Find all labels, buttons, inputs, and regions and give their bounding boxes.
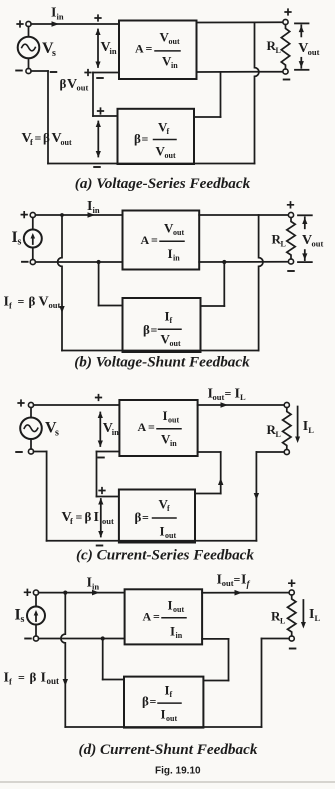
label IS minus terminal (d): [25, 638, 31, 640]
svg-text:f: f: [30, 137, 33, 147]
svg-text:out: out: [168, 416, 179, 425]
svg-text:=: =: [146, 42, 153, 56]
annotation arrow Vf (a): [96, 121, 101, 158]
wire bottom rail (b): [62, 350, 259, 352]
label VS minus terminal (a): [16, 70, 22, 72]
svg-text:β: β: [29, 294, 36, 309]
svg-text:s: s: [21, 614, 25, 625]
svg-text:out: out: [165, 531, 176, 540]
svg-text:β: β: [60, 76, 67, 91]
wire amplifier output top (d): [202, 592, 289, 594]
arrow Iin (b): [88, 212, 96, 218]
label Vf equation (c): [62, 509, 114, 526]
label feedback voltage minus sign (a): [51, 71, 57, 73]
label Vin minus (c): [98, 457, 104, 459]
svg-text:=: =: [142, 511, 149, 525]
svg-text:in: in: [110, 46, 117, 56]
wire series node down to feedback output (a): [92, 73, 94, 117]
svg-text:out: out: [170, 339, 181, 348]
svg-text:β: β: [30, 670, 37, 685]
voltage source VS (a): [18, 21, 40, 73]
wire amplifier output bottom (a): [197, 71, 283, 73]
svg-text:L: L: [308, 425, 314, 435]
svg-text:out: out: [213, 392, 225, 402]
junction node input top (d): [63, 591, 67, 595]
label Vout plus (a): [285, 9, 291, 15]
label IS value (b): [12, 229, 22, 248]
wire amplifier output bottom (b): [199, 261, 288, 263]
junction node input bottom (b): [97, 260, 101, 264]
label amplifier gain equation A=Iout/Iin (d): [143, 598, 187, 641]
svg-text:=: =: [151, 233, 158, 247]
svg-text:in: in: [112, 427, 119, 437]
label Vout (a): [298, 41, 319, 57]
label Vout minus (b): [288, 270, 294, 272]
label IL (c): [303, 419, 315, 435]
svg-text:in: in: [93, 205, 100, 215]
svg-text:L: L: [276, 46, 281, 55]
svg-text:β: β: [134, 131, 141, 146]
annotation arrow Vin (a): [95, 29, 100, 69]
svg-text:out: out: [49, 300, 61, 310]
caption (b): [74, 354, 250, 371]
label Vin (c): [103, 421, 119, 437]
label VS value (a): [42, 40, 56, 59]
svg-text:A: A: [138, 420, 147, 434]
label RL plus (d): [289, 580, 295, 586]
wire VS minus to bottom rail (a): [31, 71, 48, 164]
svg-text:in: in: [173, 254, 180, 263]
load resistor RL (b): [287, 212, 295, 264]
label Iout equals If (d): [217, 573, 251, 590]
svg-text:out: out: [61, 138, 72, 147]
svg-text:I: I: [168, 598, 173, 613]
label feedback equation beta=Vf/Vout (a): [134, 120, 176, 161]
svg-text:β: β: [85, 509, 92, 524]
svg-text:=: =: [142, 132, 149, 146]
svg-text:=: =: [153, 609, 160, 623]
current source IS (b): [24, 212, 42, 264]
svg-text:out: out: [47, 676, 60, 686]
svg-text:out: out: [165, 151, 176, 160]
label RL (c): [267, 422, 281, 439]
junction node input bottom (d): [101, 636, 105, 640]
annotation Vout measure (b): [298, 215, 312, 262]
label VS minus terminal (c): [16, 451, 22, 453]
svg-text:(c) Current-Series Feedback: (c) Current-Series Feedback: [76, 547, 254, 564]
feedback box beta (a): [118, 109, 195, 164]
svg-text:L: L: [281, 240, 286, 249]
label feedback equation beta=Vf/Iout (c): [135, 497, 177, 541]
load resistor RL (d): [288, 590, 296, 641]
svg-text:(b) Voltage-Shunt Feedback: (b) Voltage-Shunt Feedback: [74, 354, 250, 371]
wire shunt feedback vertical (b): [58, 215, 62, 351]
amplifier box A (d): [125, 589, 203, 644]
svg-text:=: =: [35, 131, 42, 145]
svg-text:in: in: [57, 12, 64, 22]
svg-text:out: out: [312, 239, 324, 249]
wire bottom rail (a): [48, 163, 255, 165]
caption (d): [79, 741, 258, 758]
annotation arrow Vf (c): [98, 498, 103, 538]
svg-text:V: V: [39, 295, 49, 310]
svg-text:out: out: [77, 83, 89, 93]
svg-text:out: out: [173, 605, 184, 614]
wire input top (d): [39, 592, 125, 594]
label Vf plus (a): [98, 108, 104, 114]
svg-text:Fig. 19.10: Fig. 19.10: [155, 766, 201, 777]
svg-text:=: =: [18, 671, 25, 685]
label Iin (d): [87, 576, 100, 592]
svg-text:A: A: [135, 42, 144, 56]
annotation Vout measure (a): [295, 23, 309, 69]
svg-text:=: =: [225, 387, 232, 401]
label If equation (d): [4, 670, 60, 687]
arrow If downward (b): [59, 306, 64, 313]
svg-text:f: f: [9, 677, 12, 687]
label IL (d): [309, 607, 321, 623]
svg-text:out: out: [173, 228, 184, 237]
svg-text:out: out: [308, 47, 320, 57]
label Iout equals IL (c): [208, 387, 247, 403]
junction node output bottom (b): [222, 260, 226, 264]
label amplifier gain equation A=Vout/Iin (b): [141, 221, 185, 263]
label amplifier gain equation A=Iout/Vin (c): [138, 408, 182, 448]
current source IS (d): [27, 590, 45, 641]
wire RL bottom to rail (c): [256, 452, 284, 541]
svg-text:(a) Voltage-Series Feedback: (a) Voltage-Series Feedback: [75, 175, 251, 192]
wire amplifier output top (a): [197, 21, 283, 23]
label IS minus terminal (b): [22, 261, 28, 263]
load resistor RL (c): [283, 402, 291, 454]
svg-text:f: f: [9, 301, 12, 311]
amplifier box A (c): [119, 400, 197, 456]
svg-text:=: =: [234, 573, 241, 587]
label VS plus terminal (c): [18, 400, 24, 406]
label IS value (d): [15, 607, 25, 626]
svg-text:f: f: [70, 516, 73, 526]
wire series node to amplifier input (a): [93, 72, 119, 74]
label feedback equation beta=If/Vout (b): [143, 309, 181, 349]
svg-text:β: β: [135, 510, 142, 525]
svg-text:out: out: [166, 714, 177, 723]
label RL (b): [272, 232, 286, 249]
svg-text:out: out: [222, 578, 234, 588]
label RL (d): [271, 609, 285, 626]
svg-text:I: I: [41, 671, 46, 686]
wire shunt feedback vertical (d): [61, 593, 65, 727]
svg-text:in: in: [170, 439, 177, 448]
wire node down to feedback input (b): [99, 262, 123, 306]
label Vout (b): [302, 233, 323, 249]
svg-text:out: out: [102, 516, 114, 526]
page rule bottom: [0, 781, 335, 783]
wire output sampling vertical (b): [259, 215, 263, 351]
svg-text:=: =: [151, 323, 158, 337]
wire feedback output node (a): [93, 115, 118, 117]
wire bottom rail (d): [65, 726, 261, 728]
arrow If downward (d): [63, 679, 68, 686]
wire series node down to feedback output (c): [97, 452, 119, 497]
wire output sampling vertical (a): [255, 22, 259, 163]
label IS plus terminal (d): [25, 590, 31, 596]
label Vout plus (b): [288, 202, 294, 208]
arrow Iout (d): [235, 590, 243, 596]
wire amplifier output bottom to feedback input (c): [195, 452, 221, 494]
label VS plus terminal (a): [17, 21, 23, 27]
label VS value (c): [45, 420, 59, 439]
svg-text:I: I: [163, 408, 168, 423]
label If equation (b): [4, 294, 61, 311]
svg-text:I: I: [168, 246, 173, 261]
svg-text:s: s: [52, 48, 56, 59]
svg-text:I: I: [170, 624, 175, 639]
caption (c): [76, 547, 254, 564]
wire input top (b): [35, 214, 122, 216]
svg-text:f: f: [167, 127, 170, 136]
label amplifier gain equation A=Vout/Vin (a): [135, 30, 180, 71]
annotation arrow IL (c): [295, 407, 300, 444]
wire series node to amplifier input (c): [97, 451, 120, 453]
svg-text:s: s: [55, 428, 59, 439]
caption (a): [75, 175, 251, 192]
svg-text:L: L: [276, 430, 281, 439]
wire output to feedback input (a): [194, 72, 221, 117]
arrow Iout (c): [221, 402, 229, 408]
svg-text:(d) Current-Shunt Feedback: (d) Current-Shunt Feedback: [79, 741, 258, 758]
svg-text:A: A: [143, 609, 152, 623]
svg-text:s: s: [18, 237, 22, 248]
svg-text:in: in: [171, 61, 178, 70]
label Iin (b): [87, 199, 100, 215]
annotation arrow IL (d): [301, 600, 306, 629]
arrow feedback sense up (c): [218, 478, 223, 485]
label RL minus (d): [290, 648, 296, 650]
label Vin plus (a): [95, 15, 101, 21]
svg-text:I: I: [161, 707, 166, 722]
label series node plus (a): [85, 70, 91, 76]
label Vout minus (a): [284, 79, 290, 81]
label beta-Vout (a): [60, 76, 89, 93]
svg-text:in: in: [176, 631, 183, 640]
wire input bottom (d): [39, 638, 125, 640]
label Vf plus (c): [99, 488, 105, 494]
svg-text:=: =: [150, 695, 157, 709]
label RL (a): [267, 38, 281, 55]
junction node input top (b): [60, 213, 64, 217]
arrow Iin (a): [52, 21, 60, 27]
wire amplifier output bottom to feedback input (d): [202, 639, 228, 681]
label Vf minus (c): [97, 545, 103, 547]
wire input top (a): [31, 23, 119, 25]
annotation arrow Vin (c): [98, 412, 103, 448]
wire input top (c): [34, 404, 120, 406]
wire output node to feedback input (b): [201, 262, 225, 306]
svg-text:f: f: [167, 504, 170, 513]
load resistor RL (a): [281, 19, 289, 74]
wire VS minus to bottom rail (c): [34, 452, 47, 541]
svg-text:=: =: [18, 295, 25, 309]
wire amplifier output top (b): [199, 214, 288, 216]
svg-text:out: out: [169, 37, 180, 46]
wire RL bottom to rail (d): [262, 639, 290, 728]
svg-text:=: =: [76, 510, 83, 524]
label Vin (a): [101, 40, 117, 56]
label Vf minus (a): [94, 166, 100, 168]
svg-text:f: f: [170, 316, 173, 325]
svg-text:A: A: [141, 233, 150, 247]
voltage source VS (c): [20, 402, 42, 454]
label Vin plus (c): [96, 395, 102, 401]
amplifier box A (a): [119, 21, 197, 80]
figure number caption: [155, 766, 201, 777]
wire bottom rail (c): [47, 540, 257, 542]
label feedback equation beta=If/Iout (d): [142, 683, 181, 724]
svg-text:f: f: [170, 690, 173, 699]
amplifier box A (b): [123, 211, 200, 270]
label Vin minus (a): [97, 77, 103, 79]
label Vf equation (a): [22, 130, 72, 147]
svg-text:I: I: [160, 524, 165, 539]
wire node down to feedback input (d): [103, 639, 124, 680]
svg-text:L: L: [240, 392, 246, 402]
feedback box beta (b): [123, 298, 201, 352]
label Iin (a): [51, 6, 64, 22]
arrow output current down (c): [254, 493, 259, 500]
svg-text:I: I: [94, 510, 99, 525]
feedback box beta (c): [119, 490, 195, 543]
svg-text:L: L: [315, 613, 321, 623]
label IS plus terminal (b): [21, 212, 27, 218]
svg-text:L: L: [280, 617, 285, 626]
wire input bottom (b): [35, 261, 122, 263]
arrow Iin (d): [92, 590, 100, 596]
svg-text:=: =: [148, 420, 155, 434]
svg-text:β: β: [143, 322, 150, 337]
feedback box beta (d): [124, 677, 203, 728]
svg-text:β: β: [142, 694, 149, 709]
wire amplifier output top (c): [198, 404, 285, 406]
svg-text:β: β: [43, 130, 50, 145]
svg-text:in: in: [92, 582, 99, 592]
